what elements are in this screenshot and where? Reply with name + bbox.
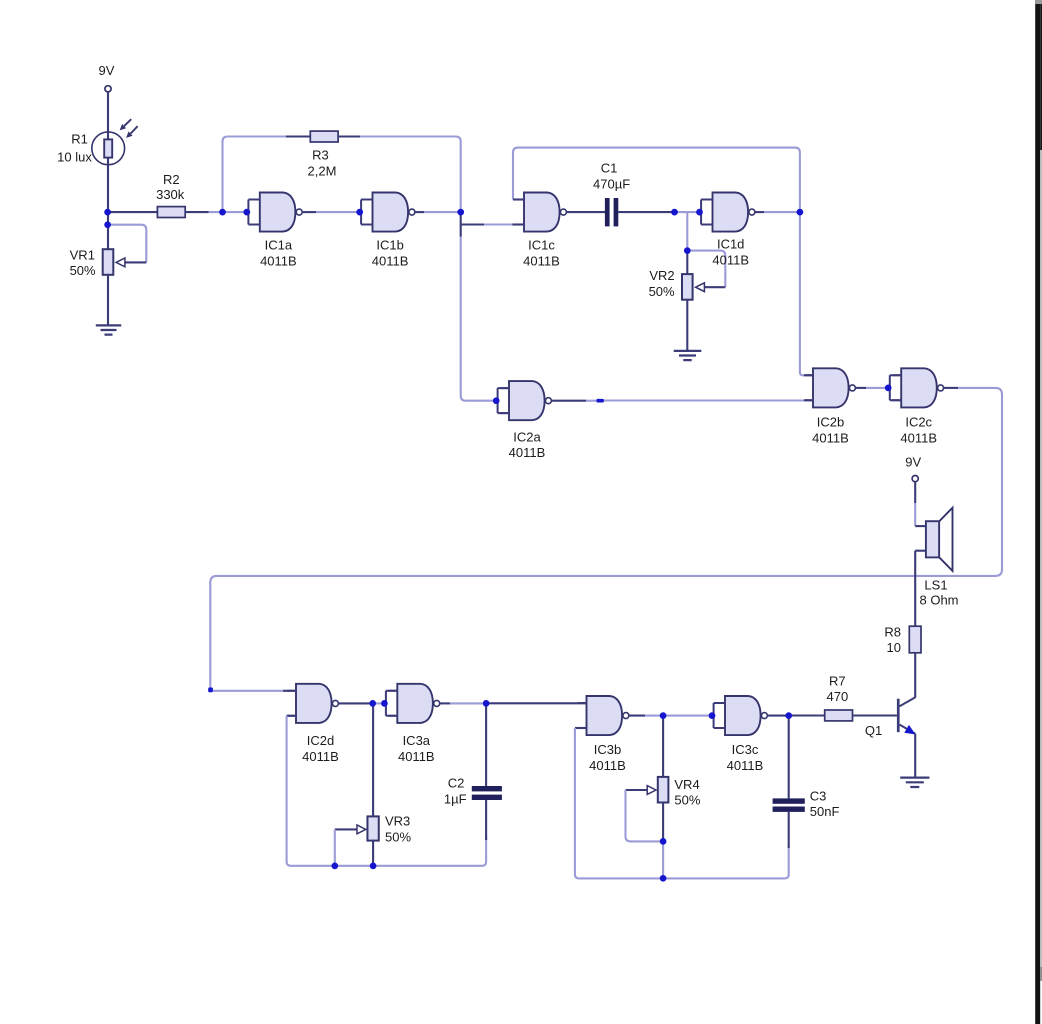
svg-text:IC2a: IC2a [513,429,541,444]
window border top notch [1035,0,1042,4]
wire Q1 emitter to ground [914,734,916,777]
svg-text:4011B: 4011B [812,430,849,445]
wire C3 bottom to rail2 [788,812,790,848]
svg-text:IC1d: IC1d [717,236,744,251]
svg-text:IC1b: IC1b [376,237,403,252]
svg-text:R3: R3 [312,148,329,163]
speaker LS1 cone [939,508,952,571]
wire node I down to rail2 [662,841,664,878]
svg-text:4011B: 4011B [523,253,560,268]
transistor Q1 emitter arrow [904,725,915,735]
resistor R8 body [909,626,921,653]
terminal 9V speaker [912,476,918,482]
terminal 9V top [105,86,111,92]
op-amp-style NAND gate IC2b body [813,368,849,407]
wire node C to IC1c lower input [461,223,484,225]
op-amp-style NAND gate IC2c body [901,368,937,407]
op-amp-style NAND gate IC3a body [397,684,433,723]
svg-text:50%: 50% [649,284,675,299]
wire R2 to node B [185,211,208,213]
wire node F to IC2b lower input [604,399,805,401]
photoresistor R1 light arrow 2 [126,126,138,138]
wire node A to R2 [108,211,158,213]
wire node D to IC1d input [675,211,700,213]
wire IC2a output stub [551,400,586,402]
op-amp-style NAND gate IC1b body [373,193,409,232]
svg-text:R8: R8 [884,625,901,640]
wire IC1d output to node E [764,211,800,213]
wire VR1 to ground [107,275,109,326]
wire node C to IC2a input [461,237,497,401]
wire VR4 wiper loop to node I [626,790,664,841]
wire IC2b output stub [855,387,866,389]
transistor Q1 emitter line [900,725,916,734]
potentiometer VR1 body [103,249,114,275]
svg-text:4011B: 4011B [900,430,937,445]
svg-text:9V: 9V [905,455,921,470]
wire R8 to Q1 collector [914,653,916,697]
node IC3c input [709,712,716,719]
wire into VR4 wiper arrow [626,789,648,791]
wire IC1a output to IC1b [316,211,360,213]
node H IC3a output [483,700,490,707]
wire IC2d lower input stub [287,715,296,717]
svg-text:4011B: 4011B [260,253,297,268]
svg-text:4011B: 4011B [302,749,339,764]
wire IC2a output light [586,400,597,402]
svg-text:4011B: 4011B [589,758,626,773]
node VR3 bottom rail [370,863,377,870]
speaker LS1 body [926,521,939,557]
ground under VR1 [96,325,121,334]
wire into VR2 wiper arrow [704,286,725,288]
wire R3 to node C [360,137,461,213]
node IC2d output [369,700,376,707]
wire into VR3 wiper arrow [335,828,357,830]
svg-text:10: 10 [887,640,901,655]
resistor R3 body [310,131,338,142]
svg-text:4011B: 4011B [727,758,764,773]
wire IC2d output to IC3a [373,702,385,704]
window scrollbar thumb [1040,967,1042,981]
wire IC3c node to R7 [789,714,825,716]
wire speaker upper stub [915,525,926,527]
wire node C down dark [460,212,462,236]
ground under VR2 [674,351,702,360]
wire 9V terminal through R1 to node A [107,92,109,249]
photoresistor R1 light arrow 1 [120,119,132,130]
svg-text:4011B: 4011B [372,253,409,268]
wire IC3a output to node H [450,702,486,704]
svg-text:R1: R1 [71,132,88,147]
capacitor C3 plates [773,798,805,803]
node IC1a input [243,209,250,216]
op-amp-style NAND gate IC3c body [725,696,761,735]
resistor R2 body [157,207,185,218]
wire node B to IC1a input [209,211,247,213]
svg-text:R7: R7 [829,674,846,689]
wire VR3 bottom to rail [372,841,374,866]
svg-text:50%: 50% [674,793,700,808]
wire IC2d output stub [338,702,372,704]
wire IC1c lower input stub [512,223,524,225]
wire VR2 top [686,251,688,275]
wire 9V to speaker light [914,503,916,526]
node IC2c input [885,385,892,392]
wire node H to IC3b top input [486,702,586,704]
svg-text:1µF: 1µF [444,792,467,807]
photoresistor R1 element [104,139,112,157]
VR3 wiper arrow [357,825,366,834]
transistor Q1 base bar [897,699,900,733]
node IC3a input [381,700,388,707]
svg-text:IC3a: IC3a [403,733,431,748]
svg-text:50%: 50% [70,263,96,278]
node IC2a input [493,397,500,404]
op-amp-style NAND gate IC3b body [587,696,623,735]
node IC1b input [356,209,363,216]
node C IC1b output [457,209,464,216]
wire IC2b top input stub [805,374,813,376]
window border right edge dark top [1040,4,1042,150]
junction square node G [208,688,213,693]
wire C1 to node D [618,211,674,213]
window border black line [1035,0,1040,1024]
node VR2 top [684,247,691,254]
wire IC1b output to node C [424,211,461,213]
wire IC2d top input stub [283,690,296,692]
wire IC3b node down to VR4 [662,716,664,777]
svg-text:470µF: 470µF [593,177,630,192]
photoresistor R1 circle [92,132,125,165]
svg-text:330k: 330k [156,187,185,202]
svg-text:470: 470 [827,689,849,704]
op-amp-style NAND gate IC1c body [524,193,560,232]
svg-text:IC3c: IC3c [732,742,759,757]
svg-text:IC3b: IC3b [594,742,621,757]
svg-text:Q1: Q1 [865,723,882,738]
VR2 wiper arrow [696,283,705,292]
VR4 wiper arrow [647,786,656,795]
svg-text:50nF: 50nF [810,804,840,819]
svg-text:9V: 9V [99,63,115,78]
resistor R7 body [825,710,853,721]
svg-text:4011B: 4011B [398,749,435,764]
svg-text:IC1a: IC1a [265,237,293,252]
svg-text:IC1c: IC1c [528,237,555,252]
wire IC1c output to C1 [566,211,605,213]
wire 9V to speaker dark [914,482,916,503]
op-amp-style NAND gate IC2a body [509,381,545,420]
wire IC3c output stub [767,715,788,717]
svg-text:50%: 50% [385,829,411,844]
wire VR4 bottom to node I [662,803,664,842]
wire IC3b output to IC3c [645,715,712,717]
wire IC1a output stub [302,211,316,213]
svg-text:C2: C2 [448,776,465,791]
wire node VR3 top [372,703,374,816]
node IC1d input [696,209,703,216]
wire IC2c output long feedback to IC2d [210,388,1002,690]
node E IC1d output [797,209,804,216]
wire node B up to R3 [223,137,287,213]
node IC3b output [660,712,667,719]
potentiometer VR2 body [682,274,693,300]
wire C2 bottom to rail [485,800,487,840]
wire to IC1c lower input light [484,223,512,225]
node VR3 wiper rail [331,863,338,870]
node A2 VR1 top [104,221,111,228]
svg-text:VR2: VR2 [649,268,674,283]
svg-text:VR4: VR4 [674,777,699,792]
node I VR4 wiper [660,838,667,845]
window scrollbar track [1040,150,1042,967]
potentiometer VR3 body [367,816,378,840]
wire R3 right lead [338,135,360,137]
op-amp-style NAND gate IC1a body [260,193,296,232]
svg-text:C3: C3 [810,789,827,804]
wire node J down to C3 [788,716,790,799]
wire VR2 to ground [686,300,688,351]
svg-text:2,2M: 2,2M [308,164,337,179]
svg-text:C1: C1 [601,161,618,176]
wire R3 left lead [286,135,310,137]
transistor Q1 collector line [900,697,916,706]
wire into VR1 wiper arrow [125,261,147,263]
wire node D tee down to VR2 node [686,212,688,251]
wire IC1c top input stub [513,198,524,200]
wire IC2c output stub [944,387,958,389]
wire IC3b output stub [629,715,645,717]
svg-text:VR3: VR3 [385,813,410,828]
wire IC2d lower input down to rail [287,716,487,866]
svg-text:IC2d: IC2d [307,733,334,748]
wire IC1d node up over to IC1c top input [513,148,800,213]
wire node G to IC2d top input [213,690,283,692]
svg-text:R2: R2 [163,172,180,187]
node A R1/R2 [104,209,111,216]
wire speaker lower stub [915,550,926,552]
node D C1 right [671,209,678,216]
svg-text:VR1: VR1 [70,248,95,263]
svg-text:4011B: 4011B [712,252,749,267]
svg-text:8 Ohm: 8 Ohm [919,593,958,608]
potentiometer VR4 body [658,777,669,803]
VR1 wiper arrow [116,258,125,267]
wire IC3b lower input stub [575,727,587,729]
wire IC2b output to IC2c [866,387,888,389]
wire IC2b lower input stub [805,399,813,401]
capacitor C2 plates [472,786,502,791]
svg-text:IC2b: IC2b [817,415,844,430]
junction square node F [597,399,604,403]
svg-text:4011B: 4011B [509,445,546,460]
node J IC3c output [785,712,792,719]
wire IC1d output stub [755,211,764,213]
svg-text:IC2c: IC2c [905,415,932,430]
wire node H down to C2 [485,703,487,786]
op-amp-style NAND gate IC2d body [296,684,332,723]
wire node E down to IC2b top input [800,212,806,375]
node VR4 rail2 [660,875,667,882]
wire speaker to R8 [914,551,916,627]
op-amp-style NAND gate IC1d body [713,193,749,232]
svg-text:10 lux: 10 lux [57,150,92,165]
wire VR1 wiper loop [108,225,147,263]
wire IC3b lower input down to rail2 [575,728,789,878]
wire IC1b output stub [415,211,424,213]
svg-text:LS1: LS1 [924,578,947,593]
capacitor C1 plates [605,198,610,226]
node B R2/R3 [219,209,226,216]
wire R7 to Q1 base [853,714,897,716]
wire VR2 wiper loop [687,251,725,288]
ground under Q1 [900,778,929,787]
wire IC3a output stub [440,702,450,704]
wire VR3 wiper down to rail [334,829,336,865]
